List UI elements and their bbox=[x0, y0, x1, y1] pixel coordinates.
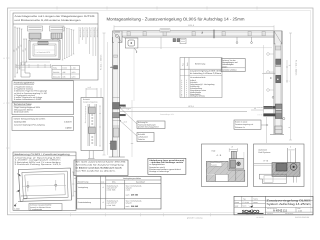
svg-text:14,5: 14,5 bbox=[123, 106, 127, 109]
svg-text:1131,5: 1131,5 bbox=[188, 24, 195, 27]
svg-text:an Spiegelstücken.: an Spiegelstücken. bbox=[149, 163, 165, 166]
svg-text:Ersetzt durch: Ersetzt durch bbox=[285, 213, 293, 215]
svg-text:Bedienung OL90S / Zusatzverrie: Bedienung OL90S / Zusatzverriegelung bbox=[15, 153, 71, 156]
callout circles right rail bbox=[267, 53, 270, 56]
right side a-dims bbox=[72, 172, 74, 196]
svg-text:Riegelstange: Riegelstange bbox=[90, 28, 93, 38]
svg-text:Ersatz für: Ersatz für bbox=[267, 213, 273, 215]
Bedienung note box bbox=[29, 204, 62, 211]
TL detail hatch blocks bbox=[29, 33, 41, 39]
svg-text:1 x Zuschnitt 1070: 1 x Zuschnitt 1070 bbox=[36, 51, 51, 54]
svg-text:für Aufschlag 14-25mm G,25: für Aufschlag 14-25mm G,25mm bbox=[190, 72, 221, 75]
label near right rail bbox=[234, 120, 261, 129]
svg-text:4: 4 bbox=[103, 186, 104, 189]
svg-text:A - B: A - B bbox=[263, 160, 268, 163]
svg-text:Bedienkraft 100N: Bedienkraft 100N bbox=[14, 111, 29, 114]
perspective window frame bbox=[18, 168, 71, 201]
top-right corner piece bbox=[274, 31, 282, 44]
right rail small dims bbox=[286, 60, 288, 83]
bottom table Verriegelungsschieber bbox=[77, 176, 161, 209]
title block bbox=[234, 196, 313, 215]
svg-text:Ersatzbedarfung: Ersatzbedarfung bbox=[78, 201, 91, 204]
svg-text:Verriegelung: Verriegelung bbox=[78, 186, 88, 189]
svg-text:3.Drehkraft-Prüfung Spannur 14: 3.Drehkraft-Prüfung Spannur 14/2,0 bbox=[15, 163, 61, 166]
svg-text:8: 8 bbox=[288, 127, 291, 128]
Bohrbild framed box bbox=[81, 98, 103, 151]
left section white notch bbox=[216, 174, 229, 181]
svg-text:1270: 1270 bbox=[72, 75, 76, 78]
svg-text:Armierbords für Zusatzverriege: Armierbords für Zusatzverriegelung bbox=[76, 164, 124, 167]
TL callout box right bbox=[50, 26, 65, 31]
top-left corner piece (Eckumlenkung) bbox=[113, 31, 123, 43]
box Anwendungsbereich bbox=[12, 81, 74, 102]
svg-text:635: 635 bbox=[63, 75, 66, 78]
Bohrbild top dims bbox=[85, 88, 87, 98]
left rail fittings bbox=[114, 66, 118, 70]
svg-text:links: links bbox=[112, 181, 116, 184]
svg-text:800-1200: 800-1200 bbox=[53, 75, 60, 78]
svg-text:G-Maß: G-Maß bbox=[14, 208, 20, 211]
svg-text:2° angewendet: 2° angewendet bbox=[30, 208, 43, 211]
svg-text:Sichere Einbauanleitung für OL: Sichere Einbauanleitung für OL90S: bbox=[14, 117, 46, 120]
box Sicherheitshinweis bbox=[12, 117, 74, 131]
svg-text:jeweilen Beschlagsebene: jeweilen Beschlagsebene bbox=[137, 126, 159, 129]
sheet border inner bbox=[10, 11, 311, 213]
svg-text:n.DIN 7985: n.DIN 7985 bbox=[107, 204, 116, 207]
svg-text:A - B: A - B bbox=[217, 154, 222, 157]
dim right of right rail bbox=[290, 33, 292, 140]
right section top channel bbox=[287, 148, 289, 167]
box Technische Daten bbox=[12, 102, 74, 114]
svg-text:in Ebene und das Schlüssel noc: in Ebene und das Schlüssel noch bbox=[76, 167, 123, 170]
left section label on wall bbox=[210, 163, 222, 167]
TL sub-drawing frame bbox=[13, 13, 98, 80]
svg-text:Gesamtlänge 1131: Gesamtlänge 1131 bbox=[160, 113, 174, 116]
svg-text:209 360: 209 360 bbox=[131, 194, 138, 197]
dim above top bar bbox=[114, 26, 274, 28]
Bedienung box bbox=[13, 152, 76, 210]
Bohrbild feet bbox=[88, 151, 90, 159]
svg-text:Zusatzverriegelung: Zusatzverriegelung bbox=[83, 100, 97, 103]
left section leader bbox=[235, 169, 237, 181]
svg-text:1: 1 bbox=[186, 95, 187, 98]
svg-text:14,5: 14,5 bbox=[88, 86, 91, 89]
TL rotated labels bbox=[78, 27, 80, 44]
svg-text:Profil Systems: Profil Systems bbox=[258, 151, 270, 154]
svg-text:Bei nicht ausreichend Kante 29: Bei nicht ausreichend Kante 293 294 bbox=[76, 161, 127, 164]
svg-text:209 245: 209 245 bbox=[131, 205, 139, 208]
right section outline profile bbox=[259, 174, 286, 183]
left rail lock bolts bbox=[120, 105, 126, 107]
bar hanging callouts bbox=[236, 37, 238, 42]
company logo bbox=[248, 205, 253, 207]
svg-text:Zusatzverriegelung/A-Pfos Aufs: Zusatzverriegelung/A-Pfos Aufspring bbox=[14, 124, 45, 127]
bar leader x161 bbox=[160, 37, 162, 49]
svg-text:mauerw.: mauerw. bbox=[211, 164, 218, 166]
corner detail box bbox=[125, 38, 138, 48]
TL corner bracket bbox=[21, 62, 30, 77]
svg-text:Einbause 2x: Einbause 2x bbox=[235, 126, 245, 129]
TL bottom dimension lines bbox=[22, 61, 50, 63]
svg-text:nach: nach bbox=[126, 194, 130, 197]
dim left of left rail bbox=[103, 33, 105, 155]
svg-text:Benennung: Benennung bbox=[195, 63, 205, 66]
left section masonry hatch bbox=[193, 161, 242, 174]
top bar fitting marks bbox=[127, 32, 130, 36]
left rail bbox=[112, 37, 114, 157]
svg-text:B mm: B mm bbox=[63, 66, 68, 69]
svg-text:40: 40 bbox=[254, 107, 256, 110]
svg-text:Pos: Pos bbox=[182, 63, 185, 66]
svg-text:Zahlrebel u.Befest.: Zahlrebel u.Befest. bbox=[222, 68, 237, 71]
TL small table bbox=[52, 66, 80, 79]
svg-text:Verriegelungsschieber: Verriegelungsschieber bbox=[123, 177, 142, 180]
right rail bottom bracket bbox=[275, 126, 282, 134]
svg-text:Ausverkauf: Ausverkauf bbox=[136, 181, 145, 184]
note box B2 bbox=[148, 158, 186, 174]
TL right dimension lines bbox=[62, 27, 64, 60]
svg-text:W203-B-EMGL98: W203-B-EMGL98 bbox=[295, 216, 309, 219]
svg-text:1070: 1070 bbox=[72, 71, 76, 74]
svg-text:Technische Daten: Technische Daten bbox=[14, 103, 33, 106]
spindle circles bbox=[27, 185, 29, 187]
right section profile dark bbox=[272, 163, 300, 177]
callout Bohrung box bbox=[137, 121, 165, 129]
left rail bottom end bbox=[109, 156, 125, 158]
svg-text:geänder n.Lösung: geänder n.Lösung bbox=[187, 217, 202, 220]
zone ticks top bbox=[56, 7, 58, 10]
svg-text:Abdeckprofile: Abdeckprofile bbox=[14, 120, 27, 123]
svg-text:A 4858: A 4858 bbox=[65, 127, 72, 130]
zone ticks bottom bbox=[70, 213, 72, 216]
svg-text:1070,5: 1070,5 bbox=[188, 105, 194, 108]
svg-text:5: 5 bbox=[290, 146, 291, 149]
TL window elevation bbox=[29, 40, 60, 60]
right section rail lines bbox=[254, 163, 272, 165]
svg-text:Riegelstange: Riegelstange bbox=[79, 28, 82, 38]
svg-text:6 weitere Informationen A 0: 6 weitere Informationen A 01590 bbox=[14, 98, 41, 101]
dim line x132 bbox=[131, 100, 133, 157]
operation arrows bbox=[17, 174, 21, 177]
svg-text:Anwendungsbereich: Anwendungsbereich bbox=[14, 82, 36, 85]
svg-text:System Aufschlag 14-25mm: System Aufschlag 14-25mm bbox=[267, 202, 312, 206]
right rail bbox=[273, 31, 275, 135]
svg-text:und Rückenmaße G,AB externe Ab: und Rückenmaße G,AB externe Abdeckungen bbox=[15, 19, 82, 22]
svg-text:1 (2): 1 (2) bbox=[298, 210, 302, 213]
svg-text:Anschlagmaße mit Längen der Ri: Anschlagmaße mit Längen der Riegelstange… bbox=[15, 15, 96, 18]
right rail fittings bbox=[276, 46, 281, 50]
svg-text:Versandeinzelteile:: Versandeinzelteile: bbox=[190, 76, 206, 79]
svg-text:A 01578: A 01578 bbox=[64, 120, 72, 123]
svg-text:Zubehör: Zubehör bbox=[138, 138, 145, 141]
svg-text:435: 435 bbox=[63, 71, 66, 74]
svg-text:Montage n.Umbenänge: Montage n.Umbenänge bbox=[149, 170, 169, 173]
TL left dimension lines bbox=[14, 27, 16, 77]
svg-text:Zusatzverriegelung mit: Zusatzverriegelung mit bbox=[235, 123, 254, 126]
svg-text:Bolzen in seide: Bolzen in seide bbox=[235, 121, 247, 124]
TL callout box left bbox=[28, 26, 43, 31]
svg-text:prüfen: prüfen bbox=[222, 65, 227, 68]
left section clamp above profile bbox=[231, 151, 236, 158]
svg-text:Bohrbild Zusatzverrieg.: Bohrbild Zusatzverrieg. bbox=[84, 106, 87, 124]
svg-text:Bezeichnung: Bezeichnung bbox=[78, 181, 88, 184]
section view A-B Holz (left) bbox=[202, 144, 248, 187]
svg-text:Montageanleitung: Montageanleitung bbox=[190, 95, 205, 98]
svg-text:A 4842 (1): A 4842 (1) bbox=[273, 209, 287, 213]
svg-text:von Teil zunächst zu drücken.: von Teil zunächst zu drücken. bbox=[76, 169, 117, 172]
svg-text:Montageanleitung - Zusatzverri: Montageanleitung - Zusatzverriegelung OL… bbox=[107, 16, 246, 21]
right rail lock bolts bbox=[264, 106, 276, 108]
dim inner vertical bbox=[263, 45, 265, 112]
svg-text:International KG: International KG bbox=[246, 214, 255, 216]
svg-text:Fl. abst. = 500mm: Fl. abst. = 500mm bbox=[295, 60, 298, 76]
right section leader down bbox=[293, 176, 295, 182]
bottom-left Z bracket bbox=[18, 196, 27, 202]
section view A-B Alu (right) bbox=[254, 144, 305, 187]
callout Bohrbild box bbox=[137, 133, 154, 142]
svg-text:nach: nach bbox=[126, 205, 130, 208]
svg-text:n.Dch: n.Dch bbox=[126, 189, 130, 192]
svg-text:Fl. abst. = 500mm: Fl. abst. = 500mm bbox=[100, 54, 103, 70]
left section profile cluster bbox=[229, 159, 244, 169]
svg-text:Holz: Holz bbox=[212, 149, 216, 152]
zone ticks left bbox=[6, 57, 10, 59]
corner drawing top bar bbox=[114, 30, 275, 32]
svg-text:500-800: 500-800 bbox=[53, 71, 59, 74]
Achtung note box bbox=[221, 59, 245, 72]
svg-text:Stck: Stck bbox=[186, 63, 189, 66]
Bohrbild rail bbox=[87, 104, 89, 146]
svg-text:schacht: schacht bbox=[126, 202, 132, 205]
svg-text:Höhe: Höhe bbox=[53, 66, 57, 69]
note box A2 bbox=[74, 160, 128, 176]
dim mid horizontal bbox=[120, 107, 273, 109]
left rail slider (dark) bbox=[111, 141, 117, 150]
svg-text:9: 9 bbox=[181, 95, 182, 98]
leader line y48 bbox=[138, 47, 272, 49]
svg-text:Riegelstange: Riegelstange bbox=[86, 28, 89, 38]
svg-text:Riegelstange: Riegelstange bbox=[83, 28, 86, 38]
parts table bbox=[180, 58, 222, 98]
svg-text:Lfd 49638: Lfd 49638 bbox=[256, 216, 264, 219]
svg-text:ø3,5: ø3,5 bbox=[124, 121, 127, 124]
svg-text:Riegelstange: Riegelstange bbox=[96, 28, 99, 38]
svg-text:4: 4 bbox=[103, 201, 104, 204]
svg-text:L mm: L mm bbox=[72, 66, 77, 69]
svg-text:n.DIN 7985: n.DIN 7985 bbox=[107, 189, 116, 192]
